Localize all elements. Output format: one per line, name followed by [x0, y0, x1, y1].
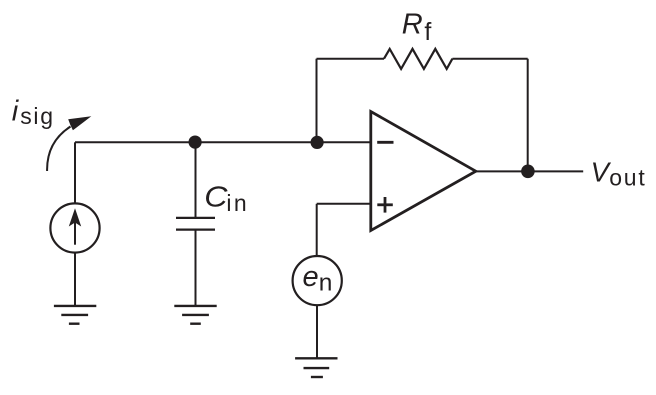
current source arrowhead	[69, 208, 81, 226]
wire: feedback left vertical	[316, 59, 318, 143]
svg-text:in: in	[226, 190, 249, 216]
wire: capacitor bottom lead to ground	[195, 230, 197, 306]
svg-text:n: n	[319, 269, 333, 296]
resistor R_f zigzag	[384, 49, 452, 69]
ground G2 (below capacitor)	[174, 306, 216, 324]
ground G1 (below current source)	[54, 306, 96, 324]
capacitor C_in plates	[176, 218, 215, 230]
ground G3 (below noise source)	[295, 358, 337, 377]
wire: vertical down to noise source	[316, 204, 318, 256]
svg-text:e: e	[303, 261, 319, 293]
svg-text:C: C	[204, 182, 228, 214]
svg-text:out: out	[609, 164, 646, 190]
svg-text:f: f	[424, 18, 431, 46]
node B junction dot (inverting input tap)	[311, 136, 324, 149]
voltage source U2 circle (e_n)	[293, 256, 342, 305]
wire: feedback top right horizontal	[452, 58, 527, 60]
node Vout junction dot	[521, 165, 535, 179]
op-amp U1 triangle	[371, 112, 476, 231]
wire: left vertical to current source	[74, 142, 76, 204]
arrow: i_sig curved arc	[47, 127, 70, 172]
wire: capacitor top lead	[195, 142, 197, 218]
i_sig arrowhead	[68, 116, 91, 130]
wire: noise source to ground	[316, 305, 318, 358]
svg-text:R: R	[402, 9, 423, 41]
wire: current source to ground	[74, 253, 76, 307]
current source arrow shaft	[74, 212, 76, 245]
svg-text:sig: sig	[20, 103, 55, 129]
op-amp minus sign	[377, 141, 393, 144]
wire: feedback top left horizontal	[317, 58, 385, 60]
wire: output horizontal	[476, 170, 583, 172]
svg-text:i: i	[12, 96, 20, 128]
wire: main input horizontal (node A)	[75, 141, 370, 143]
op-amp plus sign	[377, 197, 393, 213]
wire: feedback right vertical to output	[527, 59, 529, 172]
wire: non-inverting input horizontal	[317, 203, 370, 205]
current source I1 circle (i_sig)	[50, 203, 99, 252]
node A junction dot (capacitor tap)	[189, 136, 202, 149]
